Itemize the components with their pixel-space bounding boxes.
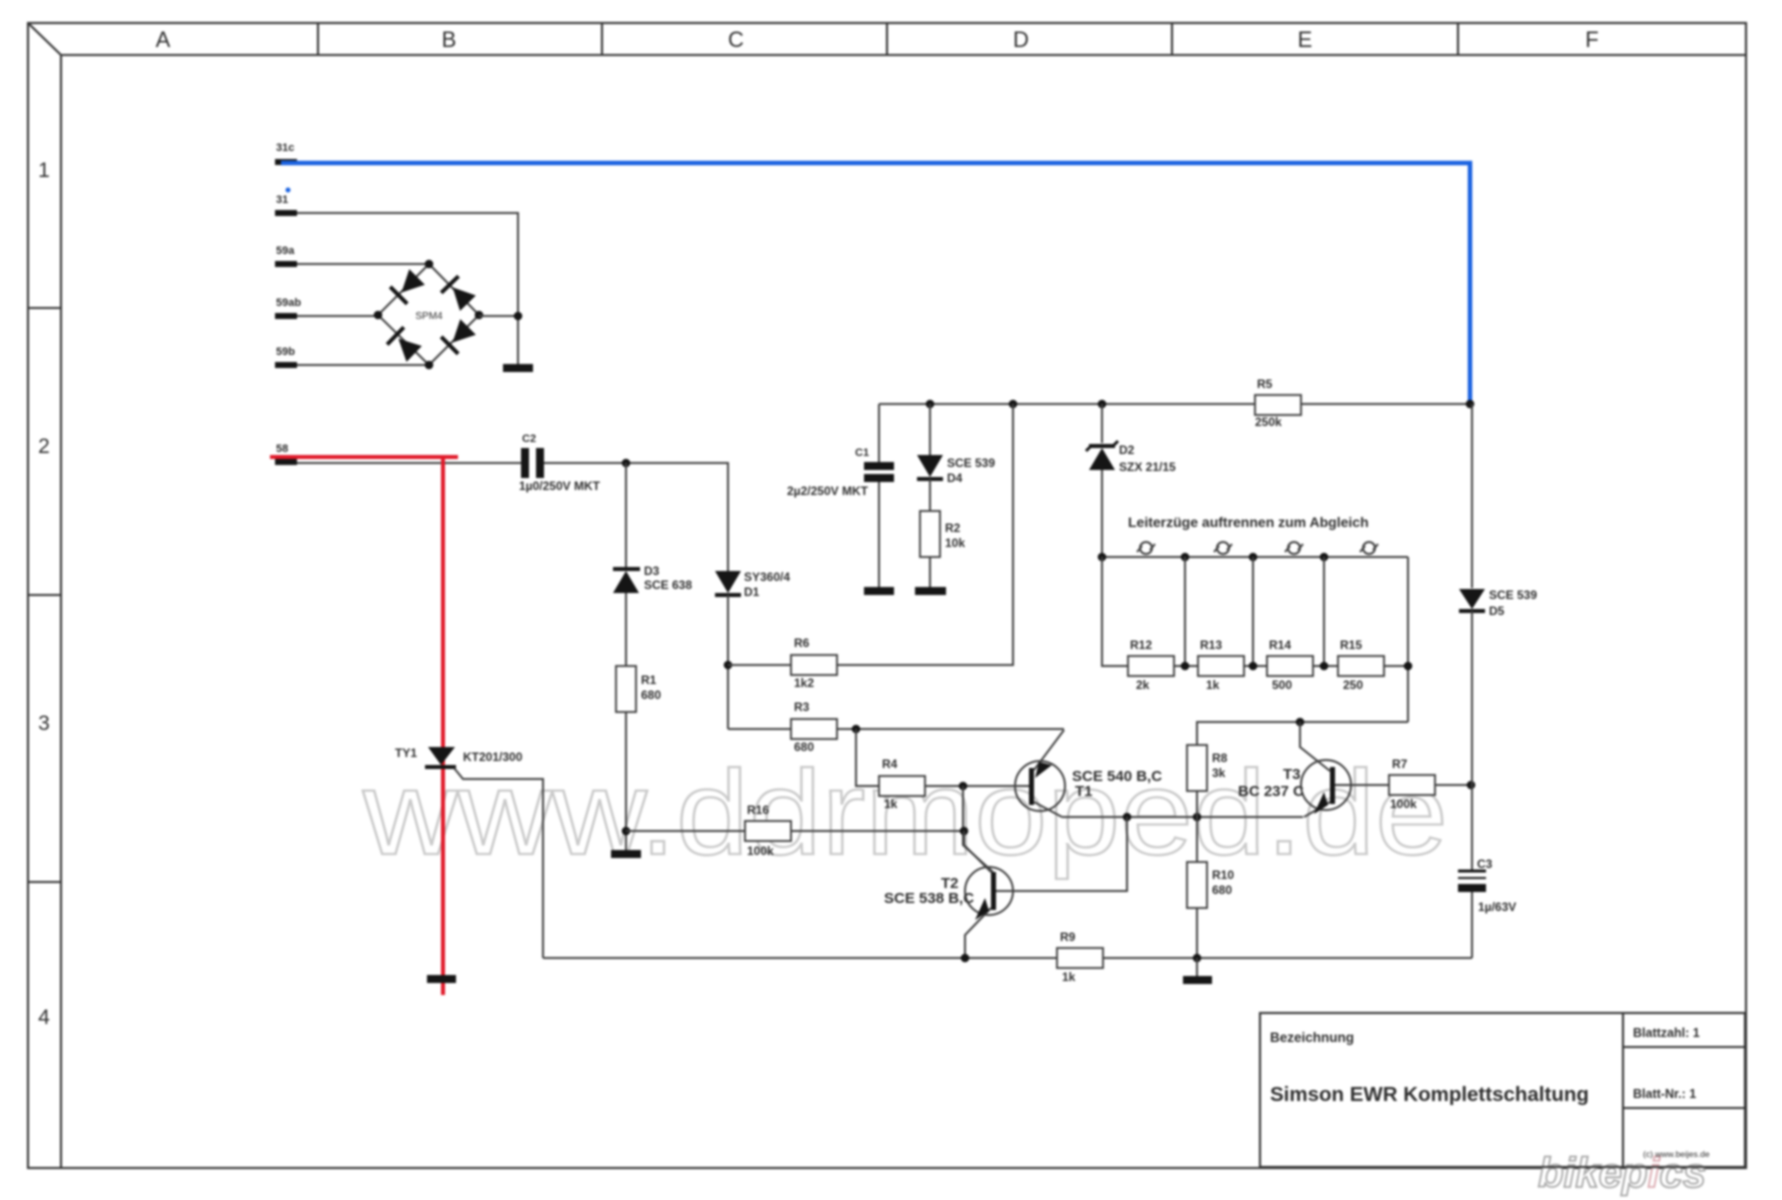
T3 emitter diagonal bbox=[1304, 802, 1330, 817]
bridge diode TL bbox=[390, 268, 425, 303]
capacitor C2 bbox=[521, 448, 529, 478]
wire D4 to R2 bbox=[929, 479, 931, 511]
TOPBUS bbox=[728, 377, 1474, 690]
svg-text:31: 31 bbox=[276, 194, 288, 206]
wire top bus bbox=[879, 403, 1255, 405]
wire bus to D4 bbox=[929, 404, 931, 455]
terminal 31c pad bbox=[275, 159, 297, 165]
resistor R5 bbox=[1255, 395, 1301, 415]
wire emitter row bbox=[1062, 816, 1303, 818]
cut symbol 4 bbox=[1360, 542, 1378, 554]
ABGLEICH bbox=[1098, 514, 1413, 745]
BOTTOM bbox=[543, 404, 1537, 984]
resistor R4 bbox=[879, 776, 925, 796]
svg-text:R9: R9 bbox=[1060, 930, 1076, 944]
wire R3 right to T1 collector bbox=[837, 728, 1064, 730]
svg-text:SCE 539: SCE 539 bbox=[947, 456, 995, 470]
T3 collector diagonal bbox=[1300, 722, 1330, 771]
svg-text:(c) www.beijes.de: (c) www.beijes.de bbox=[1643, 1149, 1710, 1159]
wire R6 left bbox=[728, 664, 791, 666]
node bridge bottom bbox=[425, 361, 434, 370]
wire drop a bbox=[1184, 557, 1186, 666]
svg-text:R14: R14 bbox=[1269, 638, 1291, 652]
node bus/D2 bbox=[1098, 400, 1107, 409]
wire R10 bottom bbox=[1196, 908, 1198, 958]
wire 58 (red horizontal) bbox=[270, 455, 458, 459]
column divider A|B bbox=[317, 23, 319, 55]
svg-text:R1: R1 bbox=[641, 673, 657, 687]
node 31/bridge junction bbox=[514, 312, 523, 321]
wire R10 gnd stub bbox=[1196, 958, 1198, 976]
wire 31 to ground bbox=[297, 213, 518, 364]
wire 59b bbox=[297, 364, 429, 366]
node b row bbox=[1249, 662, 1258, 671]
svg-text:1: 1 bbox=[38, 159, 50, 182]
svg-text:SY360/4: SY360/4 bbox=[744, 570, 790, 584]
svg-text:E: E bbox=[1298, 27, 1313, 52]
wire R16 right bbox=[791, 830, 964, 832]
node R7/right rail bbox=[1467, 781, 1476, 790]
svg-text:Simson EWR Komplettschaltung: Simson EWR Komplettschaltung bbox=[1270, 1083, 1589, 1106]
wire red vertical through TY1 bbox=[441, 457, 445, 995]
svg-text:3k: 3k bbox=[1212, 766, 1226, 780]
svg-text:1k: 1k bbox=[1062, 970, 1076, 984]
terminal 59ab pad bbox=[275, 313, 297, 319]
svg-text:SCE 539: SCE 539 bbox=[1489, 588, 1537, 602]
resistor R12 bbox=[1128, 656, 1174, 676]
node R1/R16 bbox=[622, 827, 631, 836]
svg-text:Bezeichnung: Bezeichnung bbox=[1270, 1030, 1354, 1045]
svg-text:250: 250 bbox=[1343, 678, 1363, 692]
resistor R7 bbox=[1389, 775, 1435, 795]
diode D4 bbox=[917, 455, 943, 477]
svg-text:10k: 10k bbox=[945, 536, 965, 550]
T2 emitter diagonal bbox=[965, 908, 991, 958]
svg-text:D3: D3 bbox=[644, 564, 660, 578]
svg-text:D5: D5 bbox=[1489, 604, 1505, 618]
wire R10 top bbox=[1196, 817, 1198, 862]
svg-text:R10: R10 bbox=[1212, 868, 1234, 882]
node cut bus c bbox=[1320, 553, 1329, 562]
svg-text:680: 680 bbox=[794, 740, 814, 754]
node T3 collector drop bbox=[1296, 718, 1305, 727]
svg-text:T1: T1 bbox=[1075, 783, 1093, 800]
svg-text:F: F bbox=[1585, 27, 1598, 52]
wire right riser bbox=[1407, 557, 1409, 722]
node cut bus left bbox=[1098, 553, 1107, 562]
resistor R15 bbox=[1338, 656, 1384, 676]
transistor T2 bbox=[965, 867, 1013, 915]
wire 59ab bbox=[297, 315, 378, 317]
wire R15 right bbox=[1384, 665, 1408, 667]
transistor T3 bbox=[1301, 760, 1351, 810]
svg-text:SPM4: SPM4 bbox=[415, 311, 443, 322]
svg-text:Blatt-Nr.: 1: Blatt-Nr.: 1 bbox=[1633, 1087, 1696, 1101]
node cut bus b bbox=[1249, 553, 1258, 562]
T1 collector diagonal bbox=[1034, 730, 1064, 770]
svg-text:R5: R5 bbox=[1257, 377, 1273, 391]
wire right rail upper bbox=[1471, 404, 1473, 588]
node R8/R10 bbox=[1193, 813, 1202, 822]
node bus/blue bbox=[1466, 400, 1475, 409]
wire D1 down to R3 corner bbox=[727, 595, 729, 729]
node T2 base riser bbox=[1123, 813, 1132, 822]
svg-text:KT201/300: KT201/300 bbox=[463, 750, 523, 764]
resistor R6 bbox=[791, 655, 837, 675]
svg-text:2k: 2k bbox=[1136, 678, 1150, 692]
wire R1 to gnd node bbox=[625, 712, 627, 850]
svg-text:59b: 59b bbox=[276, 346, 295, 358]
title block divider h2 bbox=[1623, 1107, 1745, 1109]
node bus/R6column bbox=[1009, 400, 1018, 409]
ground (R2) bbox=[915, 587, 946, 595]
column divider D|E bbox=[1171, 23, 1173, 55]
wire 58 to C2 bbox=[297, 462, 521, 464]
wire T3 base to R7 bbox=[1335, 784, 1389, 786]
svg-text:1µ0/250V MKT: 1µ0/250V MKT bbox=[519, 479, 601, 493]
svg-text:R4: R4 bbox=[882, 757, 898, 771]
wire TY1 gate bbox=[454, 768, 543, 958]
row divider 1|2 bbox=[28, 307, 61, 309]
wire R13-R14 bbox=[1244, 665, 1267, 667]
cut symbol 1 bbox=[1137, 542, 1155, 554]
wire R16 left bbox=[626, 830, 745, 832]
node R10 bottom bbox=[1193, 954, 1202, 963]
WATERMARKS bbox=[1538, 1149, 1706, 1196]
transistor T1 bbox=[1015, 761, 1065, 811]
wire R7 right bbox=[1435, 784, 1472, 786]
bridge edge B-R bbox=[429, 315, 479, 365]
row divider 2|3 bbox=[28, 594, 61, 596]
svg-text:R16: R16 bbox=[747, 803, 769, 817]
wire R14-R15 bbox=[1313, 665, 1338, 667]
wire 31c (blue) bbox=[281, 163, 1470, 404]
T3 emitter arrow bbox=[1314, 792, 1328, 814]
svg-text:C: C bbox=[728, 27, 744, 52]
svg-text:D2: D2 bbox=[1119, 443, 1135, 457]
wire R8 bottom bbox=[1196, 791, 1198, 817]
ground (TY1) bbox=[427, 975, 456, 983]
wire right rail mid bbox=[1471, 611, 1473, 870]
wire drop c bbox=[1323, 557, 1325, 666]
svg-text:1µ/63V: 1µ/63V bbox=[1478, 900, 1516, 914]
wire C1 to gnd bbox=[878, 482, 880, 587]
diode D1 bbox=[715, 571, 741, 593]
svg-text:4: 4 bbox=[38, 1006, 50, 1029]
bridge edge L-T bbox=[378, 264, 429, 315]
resistor R16 bbox=[745, 821, 791, 841]
terminal 58 pad bbox=[275, 459, 297, 465]
wire long vertical to R6 bbox=[836, 404, 1013, 665]
svg-text:500: 500 bbox=[1272, 678, 1292, 692]
node bus/D4 bbox=[926, 400, 935, 409]
svg-text:R6: R6 bbox=[794, 636, 810, 650]
bridge diode TR bbox=[441, 276, 476, 311]
svg-text:Leiterzüge auftrennen zum Abgl: Leiterzüge auftrennen zum Abgleich bbox=[1128, 514, 1369, 530]
svg-text:A: A bbox=[156, 27, 171, 52]
TERMINALS bbox=[270, 142, 1470, 995]
svg-text:BC 237 C: BC 237 C bbox=[1238, 783, 1304, 800]
svg-text:R12: R12 bbox=[1130, 638, 1152, 652]
svg-text:T3: T3 bbox=[1283, 766, 1301, 783]
bridge diode BR bbox=[441, 318, 476, 353]
svg-text:2µ2/250V MKT: 2µ2/250V MKT bbox=[787, 484, 869, 498]
wire D3 to R1 bbox=[625, 593, 627, 666]
top strip bottom line bbox=[61, 54, 1746, 56]
resistor R2 bbox=[920, 511, 940, 557]
svg-text:100k: 100k bbox=[747, 844, 774, 858]
column divider C|D bbox=[886, 23, 888, 55]
wire R3 row bbox=[728, 728, 791, 730]
T2 collector diagonal bbox=[964, 831, 991, 872]
wire drop to R4 bbox=[856, 729, 879, 786]
wire drop b bbox=[1252, 557, 1254, 666]
wire T2 collector riser bbox=[963, 786, 993, 872]
capacitor C3 bbox=[1458, 870, 1486, 873]
svg-text:Blattzahl: 1: Blattzahl: 1 bbox=[1633, 1026, 1700, 1040]
node bridge left bbox=[374, 311, 383, 320]
bridge edge L-B bbox=[378, 315, 429, 365]
svg-text:59ab: 59ab bbox=[276, 297, 301, 309]
LEFTCOL bbox=[395, 433, 964, 983]
cut symbol 2 bbox=[1214, 542, 1232, 554]
wire C2 to D1 column bbox=[544, 463, 728, 571]
svg-text:31c: 31c bbox=[276, 142, 294, 154]
svg-text:TY1: TY1 bbox=[395, 746, 417, 760]
T1 collector arrow bbox=[1035, 762, 1052, 778]
diode D3 bbox=[613, 567, 640, 571]
svg-text:R2: R2 bbox=[945, 521, 961, 535]
BRIDGE bbox=[374, 260, 523, 370]
ground (bridge/31) bbox=[503, 364, 533, 372]
capacitor C1 bbox=[864, 462, 894, 470]
node C2 right bbox=[622, 459, 631, 468]
wire D2 down bbox=[1101, 470, 1103, 557]
svg-text:1k: 1k bbox=[1206, 678, 1220, 692]
node T1 base / T2 collector bbox=[959, 782, 968, 791]
node c row bbox=[1320, 662, 1329, 671]
svg-text:SZX 21/15: SZX 21/15 bbox=[1119, 460, 1176, 474]
svg-text:R7: R7 bbox=[1392, 757, 1408, 771]
svg-text:100k: 100k bbox=[1390, 797, 1417, 811]
terminal 31 pad bbox=[275, 210, 297, 216]
svg-text:1k: 1k bbox=[884, 797, 898, 811]
node cut bus a bbox=[1181, 553, 1190, 562]
resistor R8 bbox=[1187, 745, 1207, 791]
title block divider h1 bbox=[1623, 1046, 1745, 1048]
svg-text:SCE 538 B,C: SCE 538 B,C bbox=[884, 890, 974, 907]
thyristor TY1 bbox=[428, 747, 455, 765]
title block divider vertical bbox=[1622, 1013, 1624, 1167]
resistor R1 bbox=[616, 666, 636, 712]
title block frame bbox=[1260, 1013, 1745, 1167]
svg-text:R3: R3 bbox=[794, 700, 810, 714]
node T2 collector/R16 bbox=[960, 827, 969, 836]
svg-text:D1: D1 bbox=[744, 585, 760, 599]
svg-text:C2: C2 bbox=[522, 433, 536, 445]
column divider B|C bbox=[601, 23, 603, 55]
diode D5 bbox=[1459, 589, 1485, 609]
svg-text:3: 3 bbox=[38, 712, 50, 735]
terminal 59b pad bbox=[275, 362, 297, 368]
node R3 right bbox=[852, 725, 861, 734]
wire R2 to gnd bbox=[929, 557, 931, 587]
node T2 emitter bbox=[961, 954, 970, 963]
ground (C1) bbox=[864, 587, 894, 595]
wire bottom rail bbox=[543, 957, 1057, 959]
resistor R9 bbox=[1057, 948, 1103, 968]
svg-text:R8: R8 bbox=[1212, 751, 1228, 765]
svg-text:D: D bbox=[1013, 27, 1029, 52]
column divider E|F bbox=[1457, 23, 1459, 55]
ground (R1/R16) bbox=[611, 850, 641, 858]
TRANSISTORS bbox=[728, 700, 1475, 958]
wire bridge right to 31 line bbox=[479, 315, 518, 317]
resistor R13 bbox=[1198, 656, 1244, 676]
node blue dot bbox=[286, 188, 291, 193]
T2 emitter arrow bbox=[975, 898, 989, 920]
svg-text:58: 58 bbox=[276, 443, 288, 455]
svg-text:SCE 638: SCE 638 bbox=[644, 578, 692, 592]
resistor R10 bbox=[1187, 862, 1207, 908]
wire T2 base bbox=[996, 817, 1127, 891]
node right riser row bbox=[1404, 662, 1413, 671]
ground (R10) bbox=[1183, 976, 1212, 984]
svg-text:R15: R15 bbox=[1340, 638, 1362, 652]
node a row bbox=[1181, 662, 1190, 671]
bridge edge T-R bbox=[429, 264, 479, 315]
svg-text:2: 2 bbox=[38, 435, 50, 458]
node bridge top bbox=[425, 260, 434, 269]
wire R12-R13 bbox=[1174, 665, 1198, 667]
wire cut bus bbox=[1102, 556, 1408, 558]
terminal 59a pad bbox=[275, 261, 297, 267]
left strip inner line bbox=[60, 55, 62, 1168]
svg-text:C3: C3 bbox=[1477, 857, 1493, 871]
svg-text:680: 680 bbox=[641, 688, 661, 702]
resistor R3 bbox=[791, 719, 837, 739]
svg-text:59a: 59a bbox=[276, 245, 295, 257]
svg-text:250k: 250k bbox=[1255, 415, 1282, 429]
T1 emitter diagonal bbox=[1034, 802, 1062, 817]
wire 59a bbox=[297, 263, 429, 265]
resistor R14 bbox=[1267, 656, 1313, 676]
row divider 3|4 bbox=[28, 881, 61, 883]
wire drop R12 left bbox=[1102, 557, 1128, 666]
svg-text:C1: C1 bbox=[855, 447, 869, 459]
svg-text:1k2: 1k2 bbox=[794, 676, 814, 690]
wire C1 drop bbox=[878, 404, 880, 462]
wire feedback row y722 bbox=[1197, 722, 1408, 745]
zener diode D2 bbox=[1089, 444, 1115, 448]
wire down to D3 bbox=[625, 463, 627, 568]
svg-text:D4: D4 bbox=[947, 471, 963, 485]
bridge diode BL bbox=[387, 327, 422, 362]
svg-text:680: 680 bbox=[1212, 883, 1232, 897]
node R6 left bbox=[724, 661, 733, 670]
corner diagonal bbox=[28, 23, 61, 55]
svg-text:R13: R13 bbox=[1200, 638, 1222, 652]
TITLEBLOCK bbox=[1260, 1013, 1745, 1167]
svg-text:B: B bbox=[442, 27, 457, 52]
cut symbol 3 bbox=[1285, 542, 1303, 554]
wire right rail lower bbox=[1471, 892, 1473, 958]
node bridge right bbox=[475, 311, 484, 320]
wire bus to D2 bbox=[1101, 404, 1103, 443]
wire R4 right to T1 base bbox=[925, 785, 1029, 787]
